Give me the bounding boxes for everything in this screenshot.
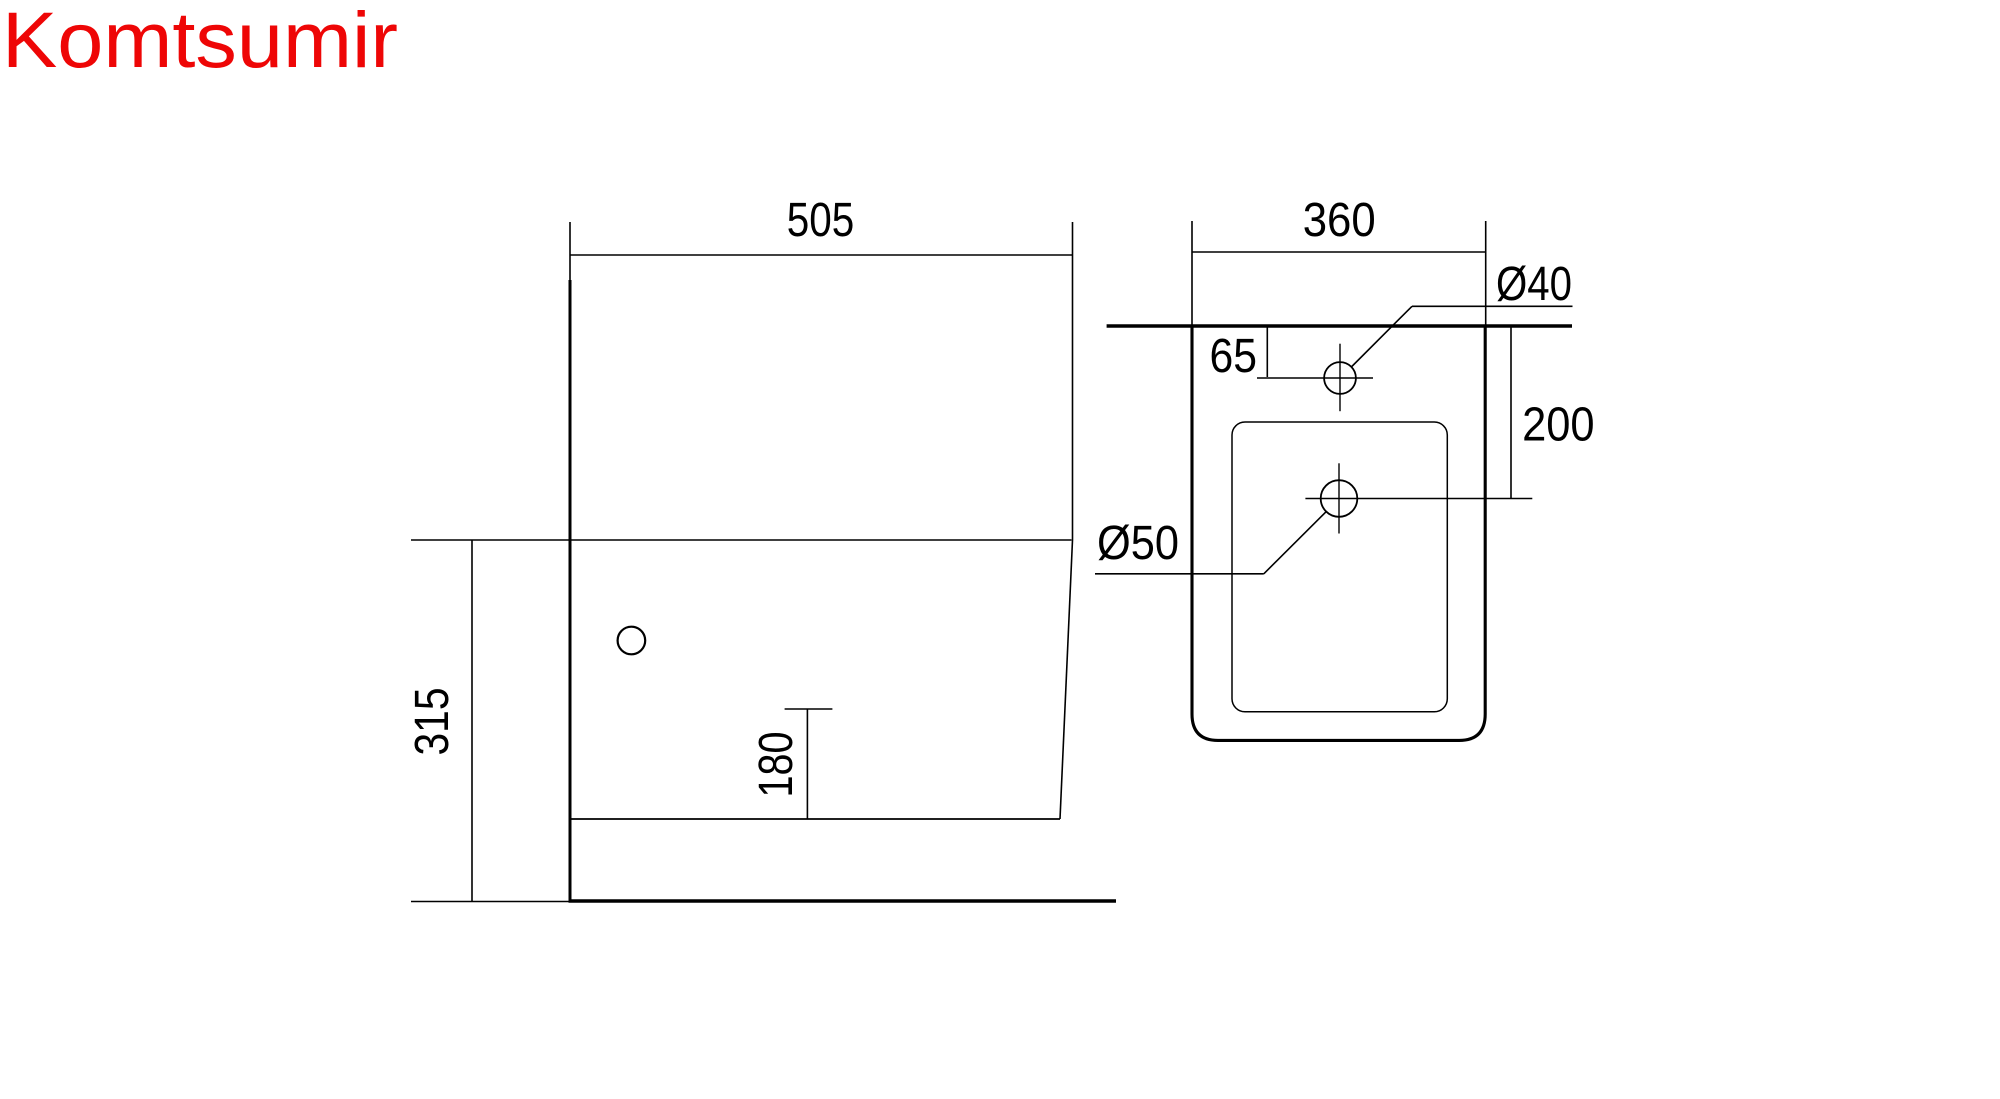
basin rounded rect	[1232, 422, 1447, 712]
dimension line 315	[471, 540, 473, 901]
body outline	[1192, 326, 1485, 740]
svg-text:505: 505	[787, 194, 855, 247]
dimension line 65	[1266, 326, 1268, 377]
D50 label underline	[1095, 573, 1264, 575]
extension line left	[569, 222, 571, 280]
D40 leader	[1351, 306, 1412, 367]
overflow hole circle	[618, 627, 646, 655]
extension line left	[1191, 221, 1193, 326]
svg-text:180: 180	[750, 732, 803, 798]
svg-text:Ø40: Ø40	[1496, 258, 1572, 311]
D50 crosshair vertical	[1338, 463, 1340, 533]
right edge slant	[1060, 540, 1073, 819]
D40 crosshair vertical	[1339, 344, 1341, 412]
extension line / right edge upper	[1072, 222, 1074, 540]
D50 crosshair horizontal / 200 bottom tick	[1305, 498, 1532, 500]
svg-text:Komtsumir: Komtsumir	[2, 0, 398, 84]
body bottom edge	[570, 818, 1060, 820]
dimension line 200	[1510, 326, 1512, 499]
svg-text:315: 315	[406, 688, 459, 756]
rim line	[411, 539, 1072, 541]
D40 crosshair horizontal / 65 bottom tick	[1257, 377, 1373, 379]
dimension line 360	[1192, 251, 1486, 253]
dimension line 180	[806, 709, 808, 819]
body left edge thick	[569, 280, 572, 901]
svg-text:65: 65	[1210, 330, 1258, 383]
hole circle D40	[1324, 362, 1356, 394]
dimension line 505	[570, 254, 1073, 256]
180 top tick	[785, 708, 833, 710]
extension line right	[1485, 221, 1487, 326]
svg-text:Ø50: Ø50	[1097, 517, 1179, 570]
D40 label underline	[1412, 305, 1573, 307]
D50 leader	[1264, 511, 1327, 574]
hole circle D50	[1321, 480, 1358, 517]
svg-text:200: 200	[1522, 399, 1595, 452]
wall line thick	[1107, 324, 1572, 328]
floor line thick	[569, 899, 1117, 902]
svg-text:360: 360	[1303, 194, 1376, 247]
floor extension thin	[411, 901, 569, 903]
